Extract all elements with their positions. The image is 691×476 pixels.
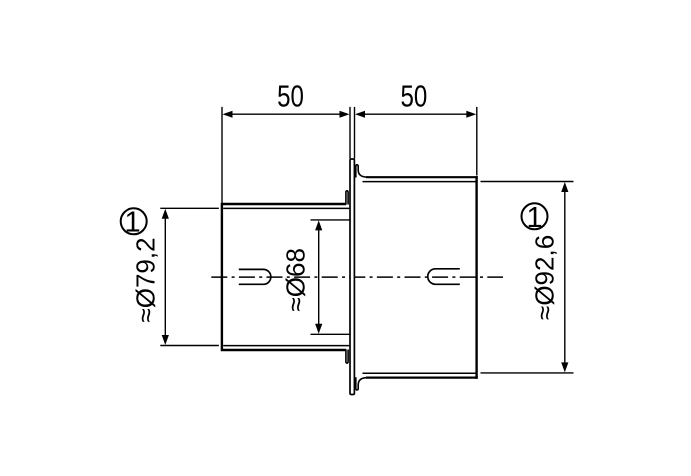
dim d92.6: bottom extension line (481, 372, 574, 374)
left pipe inner wall top (223, 207, 349, 209)
right pipe inner wall bottom (363, 372, 476, 374)
dim d92.6: top arrowhead (561, 182, 568, 192)
left pipe inner wall bottom (223, 345, 349, 347)
svg-text:≈Ø79,2: ≈Ø79,2 (130, 237, 160, 322)
centerline (211, 276, 503, 278)
svg-text:≈Ø68: ≈Ø68 (280, 248, 310, 311)
dim 50 left: right arrowhead (340, 111, 350, 118)
svg-text:1: 1 (526, 202, 542, 234)
dim d68: bottom extension line (311, 333, 351, 335)
right pipe end edge (475, 176, 477, 379)
dim 50 right: right arrowhead (466, 111, 476, 118)
left pipe outer contour (222, 204, 346, 350)
dim d92.6: dimension line (564, 192, 566, 363)
svg-text:50: 50 (277, 79, 304, 113)
svg-text:50: 50 (401, 79, 428, 113)
dim 50 left: left arrowhead (223, 111, 233, 118)
dim d79.2: bottom arrowhead (162, 335, 169, 345)
dim 50 right: dimension line (365, 113, 467, 115)
dim 50 right: extension line at pipe end (476, 107, 478, 176)
dim d68: dimension line (318, 230, 320, 324)
dim d92.6: top extension line (481, 181, 574, 183)
svg-text:≈Ø92,6: ≈Ø92,6 (530, 235, 560, 320)
dim 50 left: dimension line (233, 113, 340, 115)
dim d68: top extension line (311, 219, 351, 221)
right pipe bottom lip (356, 377, 368, 390)
dim d68: top arrowhead (315, 220, 322, 230)
dim 50 right: left arrowhead (355, 111, 365, 118)
dim d92.6: bottom arrowhead (561, 362, 568, 372)
left pipe top lip (346, 191, 348, 205)
dim 50 right: extension line at flange right (354, 107, 356, 159)
left pipe crimp slot (239, 269, 271, 284)
dim d79.2: dimension line (164, 219, 166, 336)
dim 50 left: extension line at flange left (349, 107, 351, 159)
dim d79.2: top arrowhead (162, 209, 169, 219)
dim d79.2: top extension line (160, 207, 219, 209)
left pipe bottom lip (346, 349, 348, 363)
right pipe inner wall top (363, 181, 476, 183)
svg-text:1: 1 (125, 206, 141, 238)
right pipe top lip (356, 165, 368, 178)
right pipe crimp slot (428, 269, 460, 285)
dim d68: bottom arrowhead (315, 324, 322, 334)
dim d79.2: bottom extension line (160, 345, 219, 347)
dim 50 left: extension line at pipe end (221, 107, 223, 203)
right pipe outer wall bottom (366, 377, 478, 379)
right pipe outer wall top (366, 176, 478, 178)
note circle 1 left (121, 208, 147, 234)
flange plate (350, 159, 354, 395)
note circle 1 right (522, 203, 548, 229)
